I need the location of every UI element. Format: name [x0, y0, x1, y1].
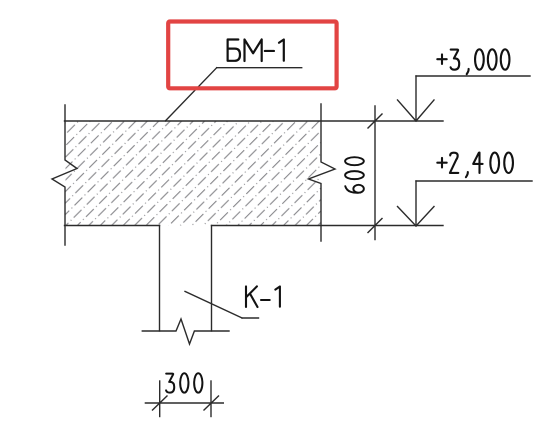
text 600 rotated — [345, 157, 364, 193]
text +3,000 — [437, 49, 509, 74]
extension line left of 300 dimension — [159, 381, 161, 417]
text 300 — [166, 373, 202, 392]
elevation mark +2,400 vertical — [415, 181, 417, 226]
beam left edge with break symbol — [52, 105, 77, 245]
tick at bottom of 600 dimension — [368, 219, 382, 233]
elevation mark +2,400 arrowhead — [398, 207, 435, 227]
concrete hatch fill of beam section — [66, 122, 321, 226]
leader tail for К-1 — [242, 317, 259, 319]
beam top edge line — [65, 120, 444, 122]
elevation mark +3,000 vertical — [415, 76, 417, 121]
elevation mark +2,400 shelf — [416, 180, 532, 182]
dimension line 600 vertical — [374, 106, 376, 240]
elevation mark +3,000 shelf — [416, 75, 530, 77]
beam bottom edge line right of column — [212, 225, 444, 227]
column left edge line — [159, 226, 161, 332]
tick at top of 600 dimension — [368, 114, 382, 128]
red highlight box around БМ-1 label — [168, 22, 336, 89]
extension line right of 300 dimension — [210, 381, 212, 417]
label БМ-1 leader diagonal to beam top — [165, 68, 216, 121]
column right edge line — [211, 226, 213, 332]
beam bottom edge line left of column — [65, 225, 160, 227]
beam right edge with break symbol — [309, 104, 336, 241]
text +2,400 — [437, 153, 513, 178]
text К-1 — [246, 286, 280, 307]
dimension line 300 horizontal — [145, 402, 223, 404]
tick at left of 300 dimension — [153, 396, 168, 410]
tick at right of 300 dimension — [204, 396, 219, 410]
leader diagonal for К-1 — [185, 291, 242, 318]
text БМ-1 — [228, 39, 284, 61]
label БМ-1 leader shelf — [217, 67, 302, 69]
column bottom break line with zigzag — [142, 319, 229, 344]
elevation mark +3,000 arrowhead — [398, 100, 435, 121]
